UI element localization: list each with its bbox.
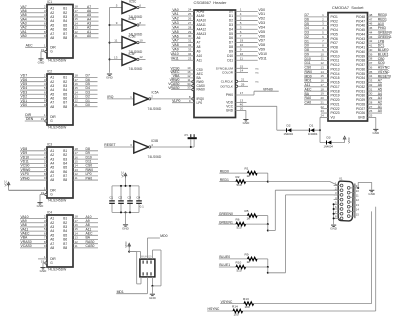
wire socket pin 28 (PIO28) to net A2 <box>356 100 382 106</box>
wire net VRAS0 to header pin 33 (RAS0) <box>168 86 205 92</box>
wire X1 pin 9 to ground <box>355 182 372 189</box>
svg-text:CAS0: CAS0 <box>86 244 95 248</box>
power VCC after D3 <box>343 136 351 143</box>
junction node GREEN0/GREEN1 <box>267 223 269 225</box>
wire socket pin 29 (PIO29) to net A3 <box>356 96 382 102</box>
svg-text:VCC: VCC <box>347 136 351 143</box>
wire net VBA to header pin 12 (BA) <box>171 74 202 80</box>
svg-text:MD1: MD1 <box>117 290 124 294</box>
svg-text:D6: D6 <box>229 36 233 40</box>
wire IC2 pin 15 to net D4 <box>73 86 98 90</box>
wire IC5A output to header pin 8 (IRQ0) <box>189 95 204 101</box>
svg-text:GND: GND <box>372 131 380 135</box>
ground below socket <box>372 129 380 135</box>
svg-text:15: 15 <box>356 212 360 216</box>
wire DIR to IC3 pin 1 (DIR) <box>9 186 47 190</box>
wire net BA to socket pin 19 (PIO19) <box>304 92 340 98</box>
wire IC3 pin 18 to net D8 <box>73 147 98 151</box>
wire header pin 3 (D4) to net VD4 <box>229 25 265 31</box>
svg-text:X1: X1 <box>339 176 343 180</box>
ground below header <box>243 120 251 126</box>
svg-text:CSG8567 Header: CSG8567 Header <box>194 0 228 5</box>
wire VCC loop to U$2 bottom-left pin <box>129 252 141 284</box>
svg-text:D9: D9 <box>229 49 233 53</box>
wire header pin 20 (GND) to ground <box>226 107 246 120</box>
svg-text:MD0: MD0 <box>160 234 167 238</box>
junction capacitor bottom rail <box>120 211 122 213</box>
wire net VD6 to IC2 pin 3 <box>20 78 47 82</box>
svg-text:IC2: IC2 <box>47 69 52 73</box>
svg-text:C4: C4 <box>136 195 140 199</box>
svg-text:VA0: VA0 <box>172 8 178 12</box>
buffer IC4 74LS245DW <box>47 210 73 271</box>
power VCC to IC3 pin 1 (DIR) <box>3 179 47 190</box>
wire socket pin 47 (PIO47) to net RED1 <box>356 17 387 23</box>
svg-text:100: 100 <box>245 305 250 309</box>
svg-text:32: 32 <box>188 43 192 47</box>
svg-text:19: 19 <box>41 259 45 263</box>
wire IC2 pin 17 to net D6 <box>73 78 98 82</box>
svg-text:VD7: VD7 <box>258 39 265 43</box>
svg-text:27: 27 <box>188 21 192 25</box>
ground below IC5 input bus <box>106 74 114 80</box>
wire IC1 pin 18 to net A7 <box>73 5 99 9</box>
svg-text:12: 12 <box>139 55 143 59</box>
svg-text:A2A10: A2A10 <box>197 19 207 23</box>
wire net VD4 to IC2 pin 5 <box>20 86 47 90</box>
wire resistor R10 to junction <box>246 266 268 268</box>
svg-text:VA3: VA3 <box>172 21 178 25</box>
svg-text:B8: B8 <box>63 178 67 182</box>
wire resistor R9 to junction <box>257 258 268 260</box>
diode D3 1N4004 <box>324 136 334 149</box>
X1 pin 3 <box>334 191 343 196</box>
svg-text:11: 11 <box>75 244 78 248</box>
wire net VPH0 to IC3 pin 9 <box>20 176 47 180</box>
svg-text:28: 28 <box>188 25 192 29</box>
wire socket pin 31 (PIO31) to net A5 <box>356 87 382 93</box>
svg-text:MAX4619: MAX4619 <box>141 256 152 259</box>
wire IC1 pin 12 to net A1 <box>73 30 99 34</box>
wire net VRW0 to IC3 pin 7 <box>20 168 47 172</box>
wire net VA5 to IC1 pin 4 <box>20 13 47 17</box>
wire net VSYNC to resistor R13 <box>220 300 244 304</box>
svg-text:74LS06D: 74LS06D <box>129 67 143 71</box>
wire net VCAS0 to IC4 pin 9 <box>20 244 47 248</box>
wire net VA11 to header pin 23 (A11) <box>171 56 202 62</box>
wire net VA4 to IC1 pin 5 <box>20 17 47 21</box>
svg-text:R2: R2 <box>236 175 240 179</box>
wire IC4 pin 12 to net RAS0 <box>73 240 98 244</box>
svg-text:A8: A8 <box>50 246 54 250</box>
jumper JP1 on RESET line <box>184 133 197 147</box>
svg-text:11: 11 <box>240 56 243 60</box>
capacitor C3 <box>127 186 133 213</box>
wire RED node to X1 pin 1 <box>268 182 340 186</box>
svg-text:A11: A11 <box>197 58 203 62</box>
wire net VLP0 to IC3 pin 8 <box>20 172 47 176</box>
svg-text:1N4004: 1N4004 <box>324 144 334 148</box>
wire IC2 pin 16 to net D5 <box>73 82 98 86</box>
svg-text:VCAS0: VCAS0 <box>21 244 32 248</box>
svg-text:R14: R14 <box>232 304 238 308</box>
svg-text:1N4004: 1N4004 <box>308 132 318 136</box>
svg-text:IC5B: IC5B <box>151 139 158 143</box>
wire socket pin 42 (PIO42) to net LPB <box>356 39 385 45</box>
svg-text:1k: 1k <box>247 217 251 221</box>
svg-text:VA11: VA11 <box>171 56 179 60</box>
connector X1 DB15 <box>338 176 355 221</box>
svg-text:11: 11 <box>75 176 78 180</box>
wire net VA8 to header pin 32 (A8) <box>171 43 200 49</box>
wire header pin 40 (VCC) to diode line <box>226 102 277 130</box>
svg-text:13: 13 <box>114 55 118 59</box>
svg-text:D8: D8 <box>229 45 233 49</box>
wire header pin 16 (D10) to net VD10 <box>227 52 267 58</box>
wire net VD5 to IC2 pin 4 <box>20 82 47 86</box>
svg-text:IC4: IC4 <box>47 210 52 214</box>
svg-text:GND: GND <box>40 269 48 273</box>
svg-text:VA0: VA0 <box>21 34 27 38</box>
wire net VD2 to IC2 pin 7 <box>20 95 47 99</box>
X1 pin 6 <box>334 205 343 210</box>
wire socket pin 48 (PIO48) to net RED0 <box>356 13 387 19</box>
wire net D9 to socket pin 10 (PIO10) <box>304 52 340 58</box>
ground below capacitor bank <box>122 225 130 231</box>
svg-text:GREEN1: GREEN1 <box>219 220 233 224</box>
svg-text:B8: B8 <box>63 105 67 109</box>
wire IC1 pin 14 to net A3 <box>73 21 99 25</box>
diode D2 1N4004 <box>284 123 294 135</box>
wire net VD0 to IC2 pin 9 <box>20 103 47 107</box>
X1 pin 11 <box>347 194 359 199</box>
X1 pin 9 <box>347 184 357 189</box>
svg-text:VRAS0: VRAS0 <box>168 86 179 90</box>
wire socket pin 41 (PIO41) to net DCL <box>356 44 385 50</box>
svg-text:D11: D11 <box>227 58 233 62</box>
svg-text:1k: 1k <box>247 260 251 264</box>
wire capacitor bottom rail <box>112 211 139 213</box>
svg-text:74LS06D: 74LS06D <box>148 107 162 111</box>
svg-text:A4A12: A4A12 <box>197 27 207 31</box>
wire IC1 pin 15 to net A4 <box>73 17 99 21</box>
wire net VA7 to IC1 pin 2 <box>20 5 47 9</box>
wire input bus for IC5C-IC5F <box>109 8 111 73</box>
wire IC4 pin 14 to net AEC <box>73 231 98 235</box>
wire resistor R2 to junction <box>246 181 268 183</box>
svg-text:VA9: VA9 <box>172 48 178 52</box>
wire IC3 pin 12 to net LP0 <box>73 172 98 176</box>
svg-text:14: 14 <box>356 208 360 212</box>
svg-text:A9: A9 <box>197 49 201 53</box>
junction capacitor top rail <box>125 185 127 187</box>
svg-text:GND: GND <box>226 109 234 113</box>
wire socket pin 46 (PIO46) to net A10 <box>356 22 384 28</box>
wire net D4 to socket pin 4 (PIO4) <box>304 26 338 32</box>
wire header pin 7 (D6) to net VD6 <box>229 34 265 40</box>
svg-text:1k: 1k <box>247 174 251 178</box>
svg-text:19: 19 <box>41 191 45 195</box>
wire IC3 pin 15 to net D11 <box>73 159 98 163</box>
wire IC2 pin 12 to net D1 <box>73 99 98 103</box>
svg-text:A8: A8 <box>197 45 201 49</box>
diode D1 1N4004 <box>308 123 318 136</box>
wire socket pin 38 (PIO38) to net CB0 <box>356 57 385 63</box>
IC U$2 (SMD) bottom center <box>140 256 155 277</box>
svg-text:PHI0: PHI0 <box>226 93 233 97</box>
svg-text:AEC: AEC <box>26 44 34 48</box>
wire header pin 2 (D2) to net VD2 <box>229 17 265 23</box>
wire IC2 pin 18 to net D7 <box>73 74 98 78</box>
X1 pin 15 <box>347 212 359 217</box>
svg-text:A8: A8 <box>50 36 54 40</box>
wire IC4 pin 15 to net A11 <box>73 227 98 231</box>
svg-text:D1: D1 <box>229 14 233 18</box>
wire header pin 1 (D0) to net VD0 <box>229 8 265 14</box>
wire VU drop to D3 branch <box>320 130 343 142</box>
wire net VA1 to IC1 pin 8 <box>20 30 47 34</box>
svg-text:PH0: PH0 <box>86 176 93 180</box>
svg-text:19: 19 <box>41 117 45 121</box>
svg-text:74LS245DW: 74LS245DW <box>48 199 68 203</box>
wire IC3 pin 16 to net D10 <box>73 155 98 159</box>
svg-text:74LS245DW: 74LS245DW <box>48 268 68 272</box>
svg-text:IC5D: IC5D <box>129 17 137 21</box>
wire net VA11 to IC4 pin 5 <box>20 227 47 231</box>
svg-text:CLRCLK: CLRCLK <box>221 80 234 84</box>
socket pin 22 stub <box>320 105 339 111</box>
socket pin 23 stub <box>320 109 339 115</box>
IC CSG8567 header (VIC-II) <box>194 0 236 117</box>
svg-text:VD6: VD6 <box>258 34 265 38</box>
X1 pin 8 <box>334 215 343 220</box>
wire IC4 pin 19 (G) to ground <box>41 259 47 267</box>
wire net VD9 to IC3 pin 3 <box>20 151 47 155</box>
svg-text:29: 29 <box>188 30 192 34</box>
wire net VA0 to IC1 pin 9 <box>20 34 47 38</box>
wire R13 to X1 pin 14 <box>254 211 372 303</box>
junction on IC5 input bus <box>109 42 111 44</box>
wire header pin 17 (PHI0) to net VPHI0 <box>226 87 279 97</box>
svg-text:IC5A: IC5A <box>152 91 160 95</box>
svg-text:IC5C: IC5C <box>129 0 137 4</box>
svg-text:29: 29 <box>241 82 245 86</box>
svg-text:510: 510 <box>237 269 242 273</box>
svg-text:24: 24 <box>320 114 324 118</box>
wire socket pin 36 (PIO36) to net HSYNC <box>356 65 390 71</box>
svg-text:B8: B8 <box>63 36 67 40</box>
svg-text:GND: GND <box>122 226 130 230</box>
wire net BLUE0 to resistor R9 <box>219 255 248 259</box>
svg-text:IC3: IC3 <box>47 142 52 146</box>
wire IC4 pin 18 to net A10 <box>73 215 98 219</box>
wire net VRAS0 to IC4 pin 8 <box>20 240 47 244</box>
junction capacitor bottom rail <box>125 211 127 213</box>
wire net VA9 to header pin 33 (A9) <box>171 47 200 53</box>
svg-text:VA7: VA7 <box>172 39 178 43</box>
power VCC at U$2 <box>124 241 131 252</box>
wire header pin 4 (D1) to net VD1 <box>229 12 265 18</box>
svg-text:VU: VU <box>331 116 336 120</box>
wire IC2 pin 14 to net D3 <box>73 90 98 94</box>
svg-text:C1: C1 <box>109 195 113 199</box>
svg-text:31: 31 <box>188 39 192 43</box>
resistor R13 100 <box>243 297 254 309</box>
wire socket pin 33 (PIO33) to net A7 <box>356 79 382 85</box>
wire net VA4 to header pin 28 (A4A12) <box>171 25 206 31</box>
svg-text:20: 20 <box>240 107 244 111</box>
svg-text:VPH0: VPH0 <box>21 176 30 180</box>
wire VCC line from header to VU <box>277 129 320 131</box>
svg-text:IC5F: IC5F <box>129 52 136 56</box>
junction VCC at U$2 <box>128 251 130 253</box>
svg-text:C3: C3 <box>127 195 131 199</box>
svg-text:RED1: RED1 <box>220 178 229 182</box>
svg-text:D4: D4 <box>229 27 233 31</box>
buffer IC2 74LS245DW <box>47 69 73 129</box>
wire IC3 pin 14 to net CS0 <box>73 164 98 168</box>
wire socket pin 24 (VU) to diode line <box>320 114 336 131</box>
ground below X1 left pins <box>330 225 338 231</box>
svg-text:A0: A0 <box>87 34 91 38</box>
wire header pin 9 (D9) to net VD9 <box>229 47 265 53</box>
svg-text:RESET: RESET <box>104 143 115 147</box>
wire DIR to IC4 pin 1 (DIR) <box>38 255 47 259</box>
wire net VCS0 to IC3 pin 6 <box>20 164 47 168</box>
wire net VD8 to IC3 pin 2 <box>20 147 47 151</box>
wire net D2 to socket pin 6 (PIO6) <box>304 35 338 41</box>
wire net RED1 to resistor R2 <box>219 178 236 182</box>
header pin 21 CLRCLK n.c. <box>221 78 259 84</box>
wire IC3 pin 11 to net PH0 <box>73 176 98 180</box>
header pin 13 VDD stub <box>226 99 246 105</box>
header pin 15 SYNC&amp;LUM n.c. <box>216 64 259 70</box>
wire net VRW0 to header pin 11 (RW0) <box>170 78 204 84</box>
wire net MD0 to socket pin 15 (PIO15) <box>304 74 340 80</box>
svg-text:A5A13: A5A13 <box>197 32 207 36</box>
svg-text:GND: GND <box>330 227 338 231</box>
svg-text:VA1: VA1 <box>172 12 178 16</box>
svg-text:A0A8: A0A8 <box>197 10 205 14</box>
svg-text:19: 19 <box>240 39 244 43</box>
wire net D5 to socket pin 3 (PIO3) <box>304 22 338 28</box>
svg-text:VD1: VD1 <box>258 12 265 16</box>
wire capacitor top rail <box>112 185 139 187</box>
junction RESET line / JP1 <box>190 146 192 148</box>
wire net VA5 to header pin 29 (A5A13) <box>171 30 206 36</box>
wire net RED0 to resistor R1 <box>219 169 247 173</box>
svg-text:11: 11 <box>356 194 359 198</box>
wire net VAEC to IC4 pin 6 <box>20 231 47 235</box>
wire socket pin 25 (GND) to ground <box>358 114 376 129</box>
svg-text:VD9: VD9 <box>258 48 265 52</box>
wire net VA3 to header pin 27 (A3A11) <box>171 21 206 27</box>
inverter IC5D 74LS06D <box>110 17 146 36</box>
wire resistor R5 to junction <box>257 215 268 217</box>
wire header pin 19 (D7) to net VD7 <box>229 39 265 45</box>
wire net VA6 to header pin 30 (A6) <box>171 34 200 40</box>
svg-text:17: 17 <box>240 91 244 95</box>
value 0.1 for capacitors <box>140 205 145 209</box>
svg-text:DOTCLK: DOTCLK <box>220 84 233 88</box>
svg-text:25: 25 <box>369 114 373 118</box>
svg-text:GND: GND <box>38 60 46 64</box>
svg-text:24: 24 <box>188 8 192 12</box>
wire GREEN node to X1 pin 2 <box>267 190 340 231</box>
svg-text:CMODA7 Socket: CMODA7 Socket <box>332 5 364 10</box>
wire net VD10 to IC3 pin 4 <box>20 155 47 159</box>
svg-text:D5: D5 <box>229 32 233 36</box>
wire net RW0 to socket pin 14 (PIO14) <box>304 70 340 76</box>
wire net VD11 to IC3 pin 5 <box>20 159 47 163</box>
svg-text:RAS0: RAS0 <box>197 88 206 92</box>
wire U$2 right loop <box>152 250 161 286</box>
ground below IC4 <box>40 268 48 274</box>
wire net D0 to socket pin 8 (PIO8) <box>304 44 338 50</box>
wire junction bar GREEN0/GREEN1 <box>267 216 269 225</box>
wire socket pin 35 (PIO35) to net VSYNC <box>356 70 390 76</box>
wire IC4 pin 17 to net A9 <box>73 219 98 223</box>
wire socket pin 43 (PIO43) to net GREEN1 <box>356 35 392 41</box>
resistor R6 510 <box>236 218 246 230</box>
wire socket pin 32 (PIO32) to net A6 <box>356 83 382 89</box>
svg-text:30: 30 <box>188 34 192 38</box>
wire net VA10 to header pin 34 (A10) <box>171 52 203 58</box>
X1 pin 4 <box>334 196 343 201</box>
wire net MD0 to U$2 top pin <box>148 234 168 259</box>
buffer IC1 74LS245DW <box>47 0 73 63</box>
svg-text:510: 510 <box>237 183 242 187</box>
wire net RA0 to socket pin 20 (PIO20) <box>304 96 340 102</box>
X1 pin 5 <box>334 201 343 206</box>
wire net CS0 to socket pin 13 (PIO13) <box>304 65 340 71</box>
svg-text:D2: D2 <box>229 19 233 23</box>
svg-text:74LS245DW: 74LS245DW <box>48 59 68 63</box>
wire net VA9 to IC4 pin 3 <box>20 219 47 223</box>
junction on IC5 input bus <box>109 24 111 26</box>
svg-text:LP0: LP0 <box>197 101 203 105</box>
svg-text:VA2: VA2 <box>172 17 178 21</box>
svg-text:IC1: IC1 <box>47 0 52 4</box>
resistor R10 510 <box>236 260 246 272</box>
junction node RED0/RED1 <box>267 181 269 183</box>
wire socket pin 39 (PIO39) to net BLUE1 <box>356 52 389 58</box>
svg-text:GREEN0: GREEN0 <box>219 212 233 216</box>
wire header pin 5 (D3) to net VD3 <box>229 21 265 27</box>
wire net D8 to socket pin 9 (PIO9) <box>304 48 338 54</box>
inverter IC5B 74LS06D (RESET) <box>104 139 194 159</box>
wire net GREEN0 to resistor R5 <box>218 212 247 216</box>
X1 pin 1 <box>334 182 343 187</box>
svg-text:19: 19 <box>41 48 45 52</box>
wire IC4 pin 11 to net CAS0 <box>73 244 98 248</box>
inverter IC5F 74LS06D <box>110 52 146 71</box>
wire net VA6 to IC1 pin 3 <box>20 9 47 13</box>
wire IC1 pin 13 to net A2 <box>73 26 99 30</box>
X1 pin 7 <box>334 210 343 215</box>
svg-text:R10: R10 <box>236 260 242 264</box>
wire net AEC to socket pin 18 (PIO18) <box>304 87 340 93</box>
wire X1 pins 5-8 to ground <box>333 203 335 224</box>
svg-text:IC5E: IC5E <box>129 35 136 39</box>
svg-text:100: 100 <box>234 312 239 316</box>
svg-text:COLOR: COLOR <box>222 71 234 75</box>
wire net VCS0 to header pin 10 (CS0) <box>171 66 203 72</box>
svg-text:11: 11 <box>75 103 78 107</box>
svg-text:GND: GND <box>106 76 114 80</box>
svg-text:11: 11 <box>114 39 117 43</box>
wire socket pin 37 (PIO37) to net SO0 <box>356 61 385 67</box>
